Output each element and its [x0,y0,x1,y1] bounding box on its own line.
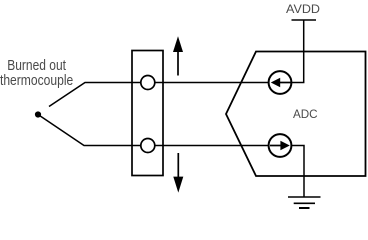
wire: lower lead from junction, diagonal then horizontal to lower input [38,115,268,146]
current source I2 (burnout, sinking) [269,134,292,157]
svg-text:ADC: ADC [293,107,318,121]
power AVDD rail bar [292,19,317,21]
svg-text:Burned out: Burned out [7,58,66,74]
arrow: current flow down indicator [173,153,183,193]
terminal: lower input pin [141,139,155,153]
wire: lower current source to ground [290,146,304,198]
svg-text:thermocouple: thermocouple [0,73,73,89]
terminal: upper input pin [141,76,155,90]
wire: open (burned-out) upper lead, diagonal then horizontal to upper input [49,83,268,107]
wire: AVDD rail down to upper current source [290,20,304,83]
ground [288,197,321,208]
ADC block outline [226,52,366,177]
arrow: current flow up indicator [173,36,183,75]
svg-text:AVDD: AVDD [286,2,320,16]
current source I1 (burnout, sourcing) [269,71,292,94]
node A: thermocouple junction dot [35,111,41,117]
connector J1: input terminal block [132,51,163,176]
